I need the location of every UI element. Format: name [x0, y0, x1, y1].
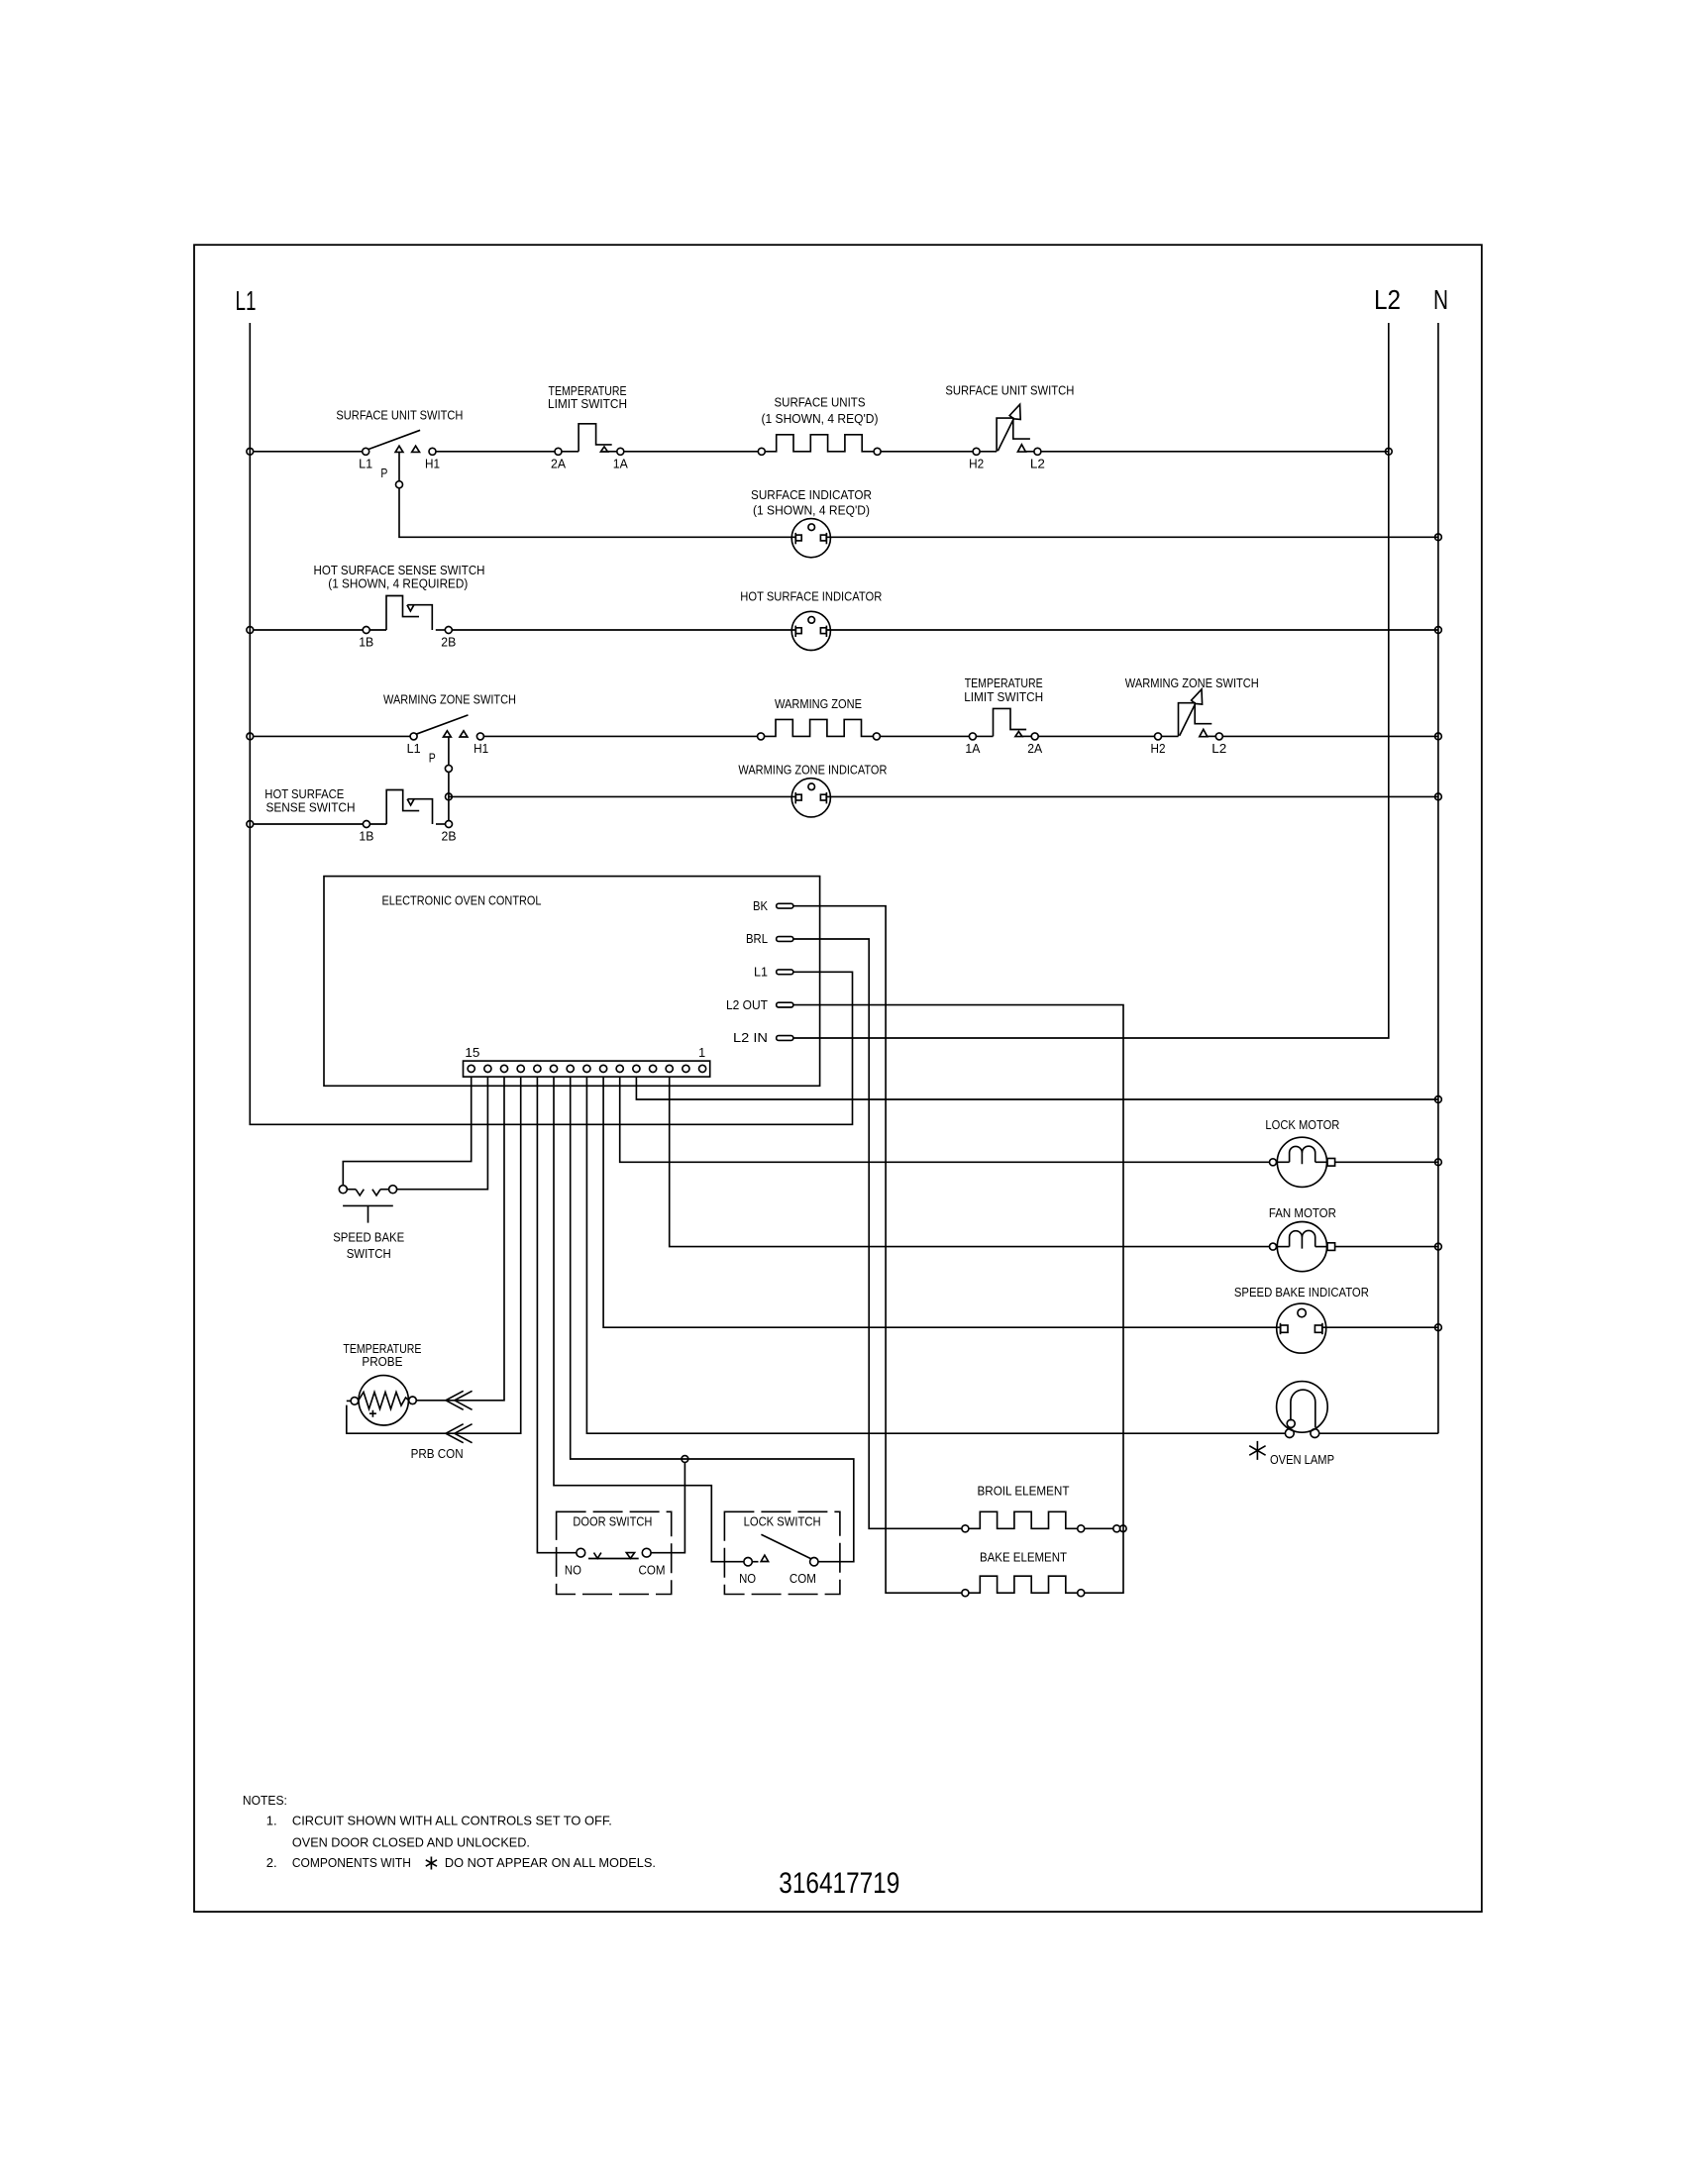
svg-text:SURFACE UNIT SWITCH: SURFACE UNIT SWITCH	[945, 383, 1074, 397]
svg-text:2B: 2B	[442, 830, 457, 844]
wire: warming zone switch to N bus	[1222, 735, 1438, 737]
svg-text:N: N	[1433, 284, 1448, 315]
terminal circle P (row 1)	[396, 481, 403, 488]
wire: 2A to warming zone switch right	[1038, 735, 1154, 737]
wire: surface indicator to N bus	[826, 536, 1438, 538]
oven lamp	[1277, 1382, 1328, 1438]
surface-unit switch WZ (L1/H1) movable contact: terminal circles, arm, pivot triangles	[410, 715, 483, 740]
wire: L1 bus to surface unit switch	[254, 451, 363, 453]
heating element WARMING ZONE	[758, 719, 881, 740]
EOC pin L2 OUT	[777, 1002, 793, 1007]
svg-text:2A: 2A	[1027, 742, 1043, 756]
fan motor	[1270, 1222, 1335, 1272]
node: fan motor at N bus	[1435, 1243, 1442, 1250]
wire: EOC BK pin to bake element	[793, 906, 962, 1593]
svg-text:1A: 1A	[613, 457, 629, 470]
svg-text:1B: 1B	[359, 830, 373, 844]
svg-text:H2: H2	[969, 457, 984, 470]
terminal circle broil right	[1113, 1525, 1120, 1532]
terminal strip pin 6	[616, 1065, 623, 1072]
svg-text:L2: L2	[1030, 457, 1045, 470]
svg-text:P: P	[380, 467, 387, 480]
svg-text:WARMING ZONE: WARMING ZONE	[775, 697, 862, 711]
wire: L1 bus to warming zone switch	[254, 735, 410, 737]
svg-text:L1: L1	[359, 457, 372, 470]
svg-text:OVEN LAMP: OVEN LAMP	[1270, 1453, 1334, 1467]
node: door/lock COM junction	[682, 1456, 688, 1463]
border frame	[194, 245, 1482, 1912]
svg-text:SURFACE UNIT SWITCH: SURFACE UNIT SWITCH	[336, 408, 463, 422]
wire: lock motor to N bus	[1334, 1161, 1438, 1163]
surface-unit switch WZ (H2/L2) right side: H2/L2 terminals, staple, arrow arm	[1155, 689, 1223, 740]
wire: pin 14 to speed bake switch	[397, 1077, 488, 1190]
svg-text:OVEN DOOR CLOSED AND UNLOCKED.: OVEN DOOR CLOSED AND UNLOCKED.	[292, 1834, 530, 1849]
svg-text:BROIL ELEMENT: BROIL ELEMENT	[978, 1485, 1070, 1499]
indicator lamp HOT SURFACE INDICATOR	[791, 611, 830, 650]
svg-text:SURFACE INDICATOR: SURFACE INDICATOR	[751, 488, 872, 502]
wire: EOC BRL pin to broil element	[793, 939, 962, 1528]
svg-text:L1: L1	[754, 966, 768, 980]
wire: pin 5 to N bus	[636, 1077, 1438, 1099]
svg-text:WARMING ZONE INDICATOR: WARMING ZONE INDICATOR	[738, 763, 887, 777]
svg-text:BRL: BRL	[746, 932, 768, 946]
wire: N bus down the right side to the oven lamp line	[1437, 323, 1439, 1433]
node: speed bake indicator at N bus	[1435, 1324, 1442, 1331]
svg-text:H1: H1	[474, 742, 488, 756]
node: hot surface row at N bus	[1435, 627, 1442, 634]
terminal strip pin 13	[500, 1065, 507, 1072]
wire: pin 11 to door switch NO	[537, 1077, 577, 1553]
wire: fan motor to N bus	[1334, 1246, 1438, 1248]
node: surface indicator row at N bus	[1435, 534, 1442, 541]
wire: pin 15 to speed bake switch	[343, 1077, 471, 1186]
DOOR SWITCH dashed box	[557, 1511, 672, 1594]
terminal strip pin 7	[600, 1065, 607, 1072]
hot surface sense switch 2 symbol	[363, 790, 452, 828]
wire: junction down to door switch COM	[651, 1462, 685, 1552]
svg-text:SWITCH: SWITCH	[347, 1247, 391, 1261]
svg-text:SPEED BAKE: SPEED BAKE	[333, 1230, 404, 1244]
svg-text:LOCK MOTOR: LOCK MOTOR	[1265, 1118, 1339, 1132]
terminal strip pin 10	[550, 1065, 557, 1072]
svg-text:15: 15	[465, 1046, 479, 1060]
wire: pin 6 to lock motor	[620, 1077, 1270, 1162]
svg-text:ELECTRONIC OVEN CONTROL: ELECTRONIC OVEN CONTROL	[382, 894, 542, 908]
wire: L1 bus to hot surface sense switch 2	[254, 823, 364, 825]
wire: speed bake indicator to N bus	[1322, 1326, 1438, 1328]
svg-text:2A: 2A	[551, 457, 567, 470]
svg-text:LOCK SWITCH: LOCK SWITCH	[744, 1514, 821, 1528]
svg-text:L2 IN: L2 IN	[733, 1031, 768, 1045]
wire: oven lamp to N bus corner	[1319, 1432, 1438, 1434]
temperature limit switch (warming zone)	[969, 708, 1038, 740]
lock switch contacts (open)	[744, 1534, 818, 1566]
svg-text:H2: H2	[1151, 742, 1166, 756]
EOC pin BRL	[777, 937, 793, 942]
terminal strip pin 5	[633, 1065, 640, 1072]
node: broil element return junction	[1120, 1525, 1127, 1532]
svg-text:SPEED BAKE INDICATOR: SPEED BAKE INDICATOR	[1234, 1286, 1369, 1300]
svg-text:BK: BK	[753, 899, 769, 913]
node: lock motor at N bus	[1435, 1159, 1442, 1166]
svg-text:HOT SURFACE: HOT SURFACE	[264, 787, 344, 801]
wire: probe left lead down to PRB CON line	[347, 1400, 351, 1402]
svg-text:316417719: 316417719	[779, 1867, 899, 1900]
door switch contacts	[577, 1548, 651, 1558]
svg-text:NO: NO	[565, 1563, 581, 1577]
svg-text:FAN MOTOR: FAN MOTOR	[1269, 1206, 1336, 1220]
asterisk mark (oven lamp note)	[1249, 1441, 1265, 1460]
svg-text:1: 1	[698, 1046, 705, 1060]
heating element BAKE ELEMENT	[962, 1576, 1085, 1597]
wire: pin 7 to speed bake indicator	[603, 1077, 1280, 1327]
svg-text:SURFACE UNITS: SURFACE UNITS	[775, 396, 866, 410]
wire: EOC L2 OUT pin down to bake/broil return	[793, 1005, 1123, 1594]
terminal strip pin 15	[468, 1065, 474, 1072]
svg-text:WARMING ZONE SWITCH: WARMING ZONE SWITCH	[383, 692, 516, 706]
wire: pin 12 to probe return (PRB CON)	[347, 1077, 521, 1433]
terminal strip pin 9	[567, 1065, 574, 1072]
node: surface row at L2 bus	[1385, 448, 1392, 455]
svg-text:NOTES:: NOTES:	[243, 1793, 287, 1808]
wire: pin 9 to door/lock COM junction	[571, 1077, 854, 1562]
node: L1 bus to warming zone row	[247, 733, 254, 740]
EOC terminal strip (pins 15..1)	[464, 1061, 710, 1077]
svg-text:2B: 2B	[441, 636, 456, 650]
chevron connector marks on probe line	[446, 1391, 464, 1409]
svg-text:TEMPERATURE: TEMPERATURE	[343, 1342, 421, 1356]
svg-text:DOOR SWITCH: DOOR SWITCH	[573, 1514, 652, 1528]
surface-unit switch SU (L1/H1) movable contact: terminal circles, arm, pivot triangles	[363, 430, 436, 455]
svg-text:1B: 1B	[359, 636, 373, 650]
svg-text:CIRCUIT SHOWN WITH ALL CONTROL: CIRCUIT SHOWN WITH ALL CONTROLS SET TO O…	[292, 1814, 612, 1828]
temperature probe (thermistor)	[351, 1376, 416, 1425]
wire: pin 10 to lock switch NO	[554, 1077, 744, 1562]
wire: element to right surface unit switch	[882, 451, 974, 453]
svg-text:(1 SHOWN, 4 REQUIRED): (1 SHOWN, 4 REQUIRED)	[328, 577, 468, 591]
node: L1 bus to surface row	[247, 448, 254, 455]
terminal strip pin 2	[683, 1065, 689, 1072]
chevron connector marks on PRB CON line	[446, 1424, 464, 1443]
temperature limit switch (row 1)	[555, 424, 624, 456]
svg-text:(1 SHOWN, 4 REQ'D): (1 SHOWN, 4 REQ'D)	[762, 412, 879, 426]
svg-text:BAKE ELEMENT: BAKE ELEMENT	[980, 1551, 1067, 1565]
terminal strip pin 14	[484, 1065, 491, 1072]
svg-text:WARMING ZONE SWITCH: WARMING ZONE SWITCH	[1125, 676, 1259, 690]
svg-text:PRB CON: PRB CON	[411, 1447, 464, 1461]
EOC pin L2 IN	[777, 1036, 793, 1041]
svg-text:PROBE: PROBE	[362, 1355, 402, 1369]
wire: L1 bus down the left side, then across to EOC L1 pin	[250, 323, 852, 1124]
svg-text:L2 OUT: L2 OUT	[726, 998, 768, 1012]
svg-text:COMPONENTS WITH: COMPONENTS WITH	[292, 1855, 411, 1870]
node: L1 bus to second hot surface sense row	[247, 821, 254, 828]
terminal strip pin 4	[650, 1065, 657, 1072]
svg-text:NO: NO	[739, 1572, 756, 1586]
LOCK SWITCH dashed box	[724, 1511, 840, 1594]
indicator lamp SPEED BAKE INDICATOR	[1277, 1303, 1326, 1353]
wire: L2 terminal to L2 bus	[1041, 451, 1389, 453]
wire: H1 to warming zone element	[483, 735, 757, 737]
speed bake switch	[339, 1186, 396, 1223]
svg-text:L2: L2	[1374, 284, 1401, 315]
hot surface sense switch (1 shown 4 required) symbol	[363, 596, 452, 634]
indicator lamp WARMING ZONE INDICATOR	[791, 779, 830, 817]
wire: pin 13 to temperature probe	[416, 1077, 504, 1401]
terminal strip pin 12	[517, 1065, 524, 1072]
node: warming zone indicator row at N bus	[1435, 793, 1442, 800]
indicator lamp SURFACE INDICATOR	[791, 519, 830, 558]
svg-text:1.: 1.	[266, 1814, 277, 1828]
wire: L2 bus down, into EOC L2 IN pin	[793, 323, 1389, 1038]
node: pin 5 wire at N bus	[1435, 1096, 1442, 1103]
svg-text:L2: L2	[1211, 742, 1226, 756]
svg-text:SENSE SWITCH: SENSE SWITCH	[266, 801, 356, 815]
ELECTRONIC OVEN CONTROL box	[324, 877, 820, 1087]
node: L1 bus to hot surface row	[247, 627, 254, 634]
svg-text:P: P	[429, 752, 436, 766]
wire: P drop to warming zone indicator	[449, 795, 795, 797]
wire: pin 8 to oven lamp line	[586, 1077, 1285, 1433]
terminal strip pin 8	[583, 1065, 590, 1072]
EOC pin BK	[777, 903, 793, 908]
svg-text:HOT SURFACE INDICATOR: HOT SURFACE INDICATOR	[740, 590, 882, 604]
wire: P pivot drop to surface indicator row	[398, 452, 400, 480]
svg-text:TEMPERATURE: TEMPERATURE	[965, 676, 1043, 690]
svg-text:LIMIT SWITCH: LIMIT SWITCH	[964, 690, 1043, 704]
terminal strip pin 1	[699, 1065, 706, 1072]
svg-text:L1: L1	[407, 742, 421, 756]
svg-text:DO NOT APPEAR ON ALL MODELS.: DO NOT APPEAR ON ALL MODELS.	[445, 1855, 656, 1870]
wire: 1A to surface unit element	[624, 451, 759, 453]
heating element SURFACE UNITS	[758, 435, 881, 456]
svg-text:L1: L1	[236, 285, 257, 316]
svg-text:(1 SHOWN, 4 REQ'D): (1 SHOWN, 4 REQ'D)	[753, 504, 870, 518]
wire: hot surface indicator to N bus	[826, 629, 1438, 631]
wire: element to temperature limit switch	[881, 735, 970, 737]
asterisk mark (note 2)	[426, 1857, 437, 1870]
svg-text:HOT SURFACE SENSE SWITCH: HOT SURFACE SENSE SWITCH	[314, 564, 485, 577]
lock motor	[1270, 1137, 1335, 1187]
wire: 2B to hot surface indicator	[452, 629, 795, 631]
terminal strip pin 3	[666, 1065, 673, 1072]
node: warming zone row at N bus	[1435, 733, 1442, 740]
EOC pin L1	[777, 970, 793, 975]
wire: warming zone P pivot drop	[448, 737, 450, 765]
svg-text:2.: 2.	[266, 1855, 277, 1870]
svg-text:COM: COM	[789, 1572, 816, 1586]
wire: broil element right lead	[1084, 1527, 1113, 1529]
svg-text:LIMIT SWITCH: LIMIT SWITCH	[548, 397, 627, 411]
wire: pin 3 to fan motor	[670, 1077, 1270, 1247]
terminal strip pin 11	[534, 1065, 541, 1072]
svg-text:1A: 1A	[965, 742, 981, 756]
wire: warming zone indicator to N bus	[826, 795, 1438, 797]
terminal circle P (warming zone)	[445, 765, 452, 772]
svg-text:H1: H1	[425, 457, 440, 470]
wire: H1 to temperature limit switch	[436, 451, 555, 453]
heating element BROIL ELEMENT	[962, 1511, 1085, 1532]
svg-text:COM: COM	[639, 1563, 666, 1577]
node: P drop junction with warming zone indicator row	[446, 793, 453, 800]
surface-unit switch SU (H2/L2) right side: H2/L2 terminals, staple, arrow arm	[973, 404, 1041, 455]
wire: L1 bus to hot surface sense switch	[254, 629, 364, 631]
